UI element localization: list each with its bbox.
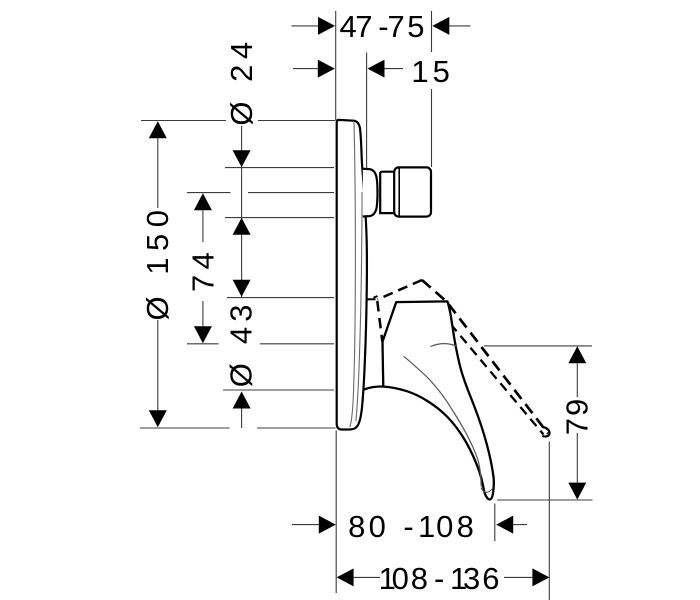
svg-text:Ø 150: Ø 150 (140, 204, 175, 321)
svg-text:Ø 24: Ø 24 (224, 36, 259, 125)
svg-text:108 - 136: 108 - 136 (379, 561, 500, 596)
svg-text:74: 74 (186, 247, 221, 292)
svg-text:Ø 43: Ø 43 (224, 299, 259, 387)
svg-text:47-75: 47-75 (340, 9, 425, 44)
svg-text:79: 79 (559, 397, 594, 435)
